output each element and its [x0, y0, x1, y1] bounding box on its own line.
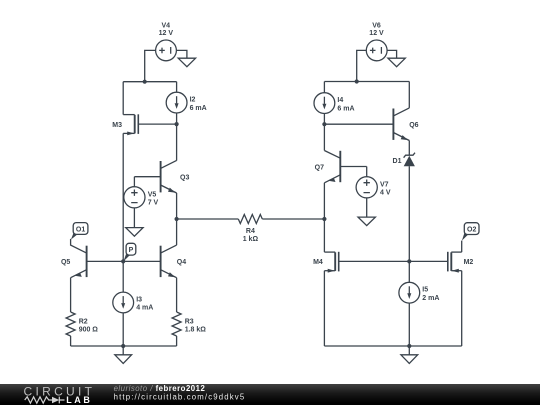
ground bottom-left: [115, 355, 132, 364]
wire M2 drain down: [461, 271, 463, 346]
wire M3 drain down to node P: [122, 133, 124, 261]
svg-text:V5: V5: [148, 191, 157, 198]
wire to R4: [177, 218, 239, 220]
wire V5 top stub: [133, 177, 135, 187]
current source I3 4 mA: [113, 292, 154, 313]
wire R2 to bottom rail: [70, 336, 72, 346]
svg-text:M2: M2: [464, 259, 474, 266]
node junction gates/D1/I5: [407, 259, 411, 263]
wire rail to I4: [323, 82, 325, 93]
ground under V7: [358, 217, 375, 226]
svg-text:I3: I3: [136, 297, 142, 304]
wire I3 to bottom rail: [122, 313, 124, 346]
wire Q7 collector up to base node: [323, 124, 325, 150]
svg-text:I4: I4: [337, 97, 343, 104]
voltage source V5 7 V: [124, 187, 159, 208]
wire top-right rail: [324, 81, 409, 83]
wire node down to M4: [323, 219, 325, 252]
wire top-left rail: [123, 81, 176, 83]
svg-text:V7: V7: [380, 181, 389, 188]
wire gate node down to Q3 collector: [176, 124, 178, 161]
wire Q5 emitter down to R2: [70, 278, 72, 312]
svg-text:Q6: Q6: [409, 122, 418, 129]
svg-text:4 mA: 4 mA: [136, 305, 153, 312]
svg-text:Q3: Q3: [180, 175, 189, 182]
ground under V6: [388, 58, 405, 66]
wire Q7 emitter down: [323, 183, 325, 219]
svg-text:M4: M4: [313, 259, 323, 266]
svg-text:V4: V4: [162, 22, 171, 29]
flag node O1: [71, 223, 88, 240]
wire P node down to I3: [122, 261, 124, 292]
svg-text:I2: I2: [190, 97, 196, 104]
node junction P: [121, 259, 125, 263]
wire Q3 emitter down: [176, 193, 178, 219]
wire rail down to Q6 collector: [408, 82, 410, 108]
ground under V4: [178, 58, 195, 66]
svg-text:http://circuitlab.com/c9ddkv5: http://circuitlab.com/c9ddkv5: [114, 392, 246, 401]
wire rail to I2: [176, 82, 178, 93]
svg-text:1 kΩ: 1 kΩ: [243, 236, 259, 243]
node junction bottom-left: [121, 344, 125, 348]
wire O2 down to M2: [461, 241, 463, 253]
svg-text:7 V: 7 V: [148, 200, 159, 207]
svg-text:V6: V6: [372, 22, 381, 29]
transistor Q5 (PNP): [61, 239, 123, 278]
wire bottom-right rail: [324, 345, 461, 347]
svg-text:O1: O1: [76, 226, 85, 233]
svg-text:6 mA: 6 mA: [337, 105, 354, 112]
wire Q6 emitter to D1: [408, 141, 410, 156]
wire M3 gate lead: [139, 123, 177, 125]
svg-text:12 V: 12 V: [369, 30, 384, 37]
node junction I2/M3 gate: [175, 122, 179, 126]
node junction V4/rail: [143, 80, 147, 84]
svg-text:P: P: [129, 247, 134, 254]
wire V7 to ground: [366, 198, 368, 217]
transistor Q3 (NPN): [134, 160, 189, 193]
logo resistor: [25, 397, 52, 403]
wire V4 right lead: [176, 50, 187, 58]
transistor M2 (PMOS mirrored): [448, 252, 474, 273]
wire R3 to bottom rail: [176, 336, 178, 346]
voltage source V4: [156, 22, 177, 60]
node junction R4/Q7 emitter/M4 source: [322, 217, 326, 221]
node junction I4/Q6 base/Q7 collector: [322, 122, 326, 126]
current source I4 6 mA: [314, 93, 355, 114]
voltage source V6: [366, 22, 387, 60]
svg-text:R3: R3: [185, 319, 194, 326]
wire rail down to M3 source: [122, 82, 124, 115]
flag node P: [124, 243, 136, 261]
svg-text:12 V: 12 V: [159, 30, 174, 37]
wire I2 to gate node: [176, 113, 178, 124]
svg-text:1.8 kΩ: 1.8 kΩ: [185, 327, 207, 334]
svg-text:2 mA: 2 mA: [422, 295, 439, 302]
svg-text:LAB: LAB: [66, 395, 92, 405]
voltage source V7 4 V: [356, 177, 391, 198]
svg-text:Q7: Q7: [315, 164, 324, 171]
svg-text:O2: O2: [467, 226, 476, 233]
svg-text:M3: M3: [112, 122, 122, 129]
wire I5 to bottom rail: [408, 303, 410, 346]
svg-text:900 Ω: 900 Ω: [79, 327, 99, 334]
transistor M4 (PMOS): [313, 252, 339, 273]
wire I4 to base node: [323, 114, 325, 125]
wire R4 right: [262, 218, 324, 220]
current source I5 2 mA: [399, 282, 440, 303]
svg-text:I5: I5: [422, 287, 428, 294]
svg-text:Q5: Q5: [61, 259, 70, 266]
wire V6 left lead: [357, 50, 367, 81]
wire ground stub right: [408, 346, 410, 355]
wire bottom-left rail: [71, 345, 177, 347]
footer bar: [0, 384, 540, 405]
wire V4 left lead to left rail drop: [145, 50, 156, 81]
wire D1 down to I5: [408, 166, 410, 282]
transistor Q6 (NPN): [393, 108, 418, 141]
svg-text:R2: R2: [79, 319, 88, 326]
wire V7 top stub: [366, 167, 368, 178]
current source I2 6 mA: [166, 92, 207, 113]
resistor R4 1 kOhm: [238, 215, 262, 243]
logo diode: [52, 397, 59, 404]
svg-text:Q4: Q4: [177, 259, 186, 266]
flag node O2: [462, 223, 479, 241]
svg-text:6 mA: 6 mA: [190, 105, 207, 112]
wire V5 to ground: [133, 208, 135, 228]
node junction bottom-right: [407, 344, 411, 348]
wire M4 drain down: [323, 271, 325, 346]
node junction Q3 emitter / R4 / Q4 collector: [175, 217, 179, 221]
ground bottom-right: [401, 355, 418, 364]
wire V6 right lead: [387, 50, 397, 58]
diode D1 (zener): [393, 153, 415, 167]
wire Q4 collector up: [176, 219, 178, 245]
transistor M3 (PMOS): [112, 114, 138, 135]
wire Q6 base lead: [324, 123, 393, 125]
node junction V6/rail: [355, 79, 359, 83]
resistor R2 900 Ohm: [66, 312, 98, 336]
transistor Q7 (NPN mirrored): [315, 151, 367, 183]
wire ground stub left: [122, 346, 124, 355]
svg-text:D1: D1: [393, 158, 402, 165]
transistor Q4 (NPN): [123, 245, 186, 278]
ground under V5: [126, 228, 143, 237]
svg-text:R4: R4: [246, 228, 255, 235]
svg-text:4 V: 4 V: [380, 190, 391, 197]
wire M2 gate lead: [409, 260, 447, 262]
wire Q4 emitter down to R3: [176, 278, 178, 312]
wire M4 gate lead: [339, 260, 409, 262]
resistor R3 1.8 kOhm: [172, 312, 206, 336]
